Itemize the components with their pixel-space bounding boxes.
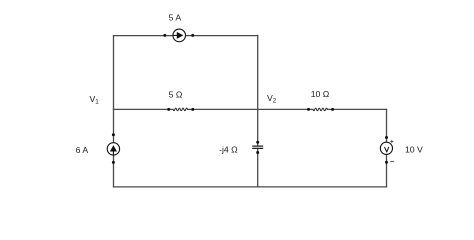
svg-text:5 A: 5 A — [169, 12, 182, 22]
svg-text:5 Ω: 5 Ω — [169, 89, 183, 99]
svg-text:10 Ω: 10 Ω — [311, 89, 330, 99]
svg-text:6 A: 6 A — [76, 145, 89, 155]
svg-text:-j4 Ω: -j4 Ω — [219, 144, 238, 154]
svg-text:10 V: 10 V — [405, 145, 423, 155]
